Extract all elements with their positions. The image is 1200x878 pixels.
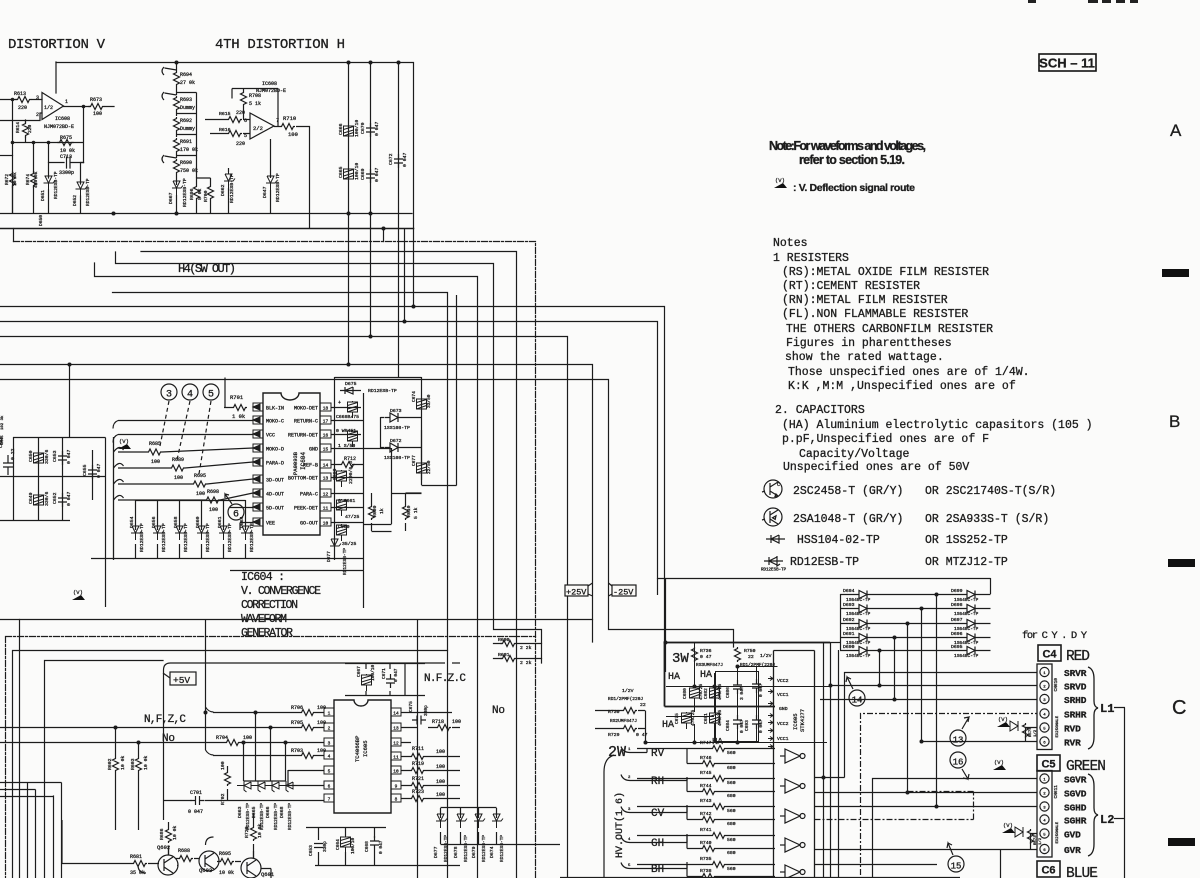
svg-text:C653: C653 [308, 845, 314, 856]
wire L1 link [1114, 708, 1125, 878]
svg-text:100: 100 [93, 111, 102, 117]
svg-text:RD12ESB-TP: RD12ESB-TP [463, 835, 469, 862]
svg-text:47/25: 47/25 [345, 514, 360, 520]
svg-text:2: 2 [36, 112, 39, 118]
V-route flag near bus entry [118, 438, 131, 449]
svg-text:R738: R738 [700, 868, 712, 874]
capacitor C675b [682, 712, 692, 729]
STK amp channel 4 [780, 838, 805, 852]
svg-text:1: 1 [1043, 672, 1046, 676]
V-route flag C5 [1002, 822, 1015, 833]
svg-text:OR 1SS252-TP: OR 1SS252-TP [925, 534, 1008, 547]
zener D674 [492, 808, 503, 844]
circled pointer 13 [950, 717, 969, 746]
svg-text:D647: D647 [262, 186, 268, 198]
wire feedback rail y142 [13, 100, 84, 214]
zener D658 [175, 500, 186, 558]
svg-text:IC604 :: IC604 : [241, 571, 285, 584]
svg-text:show the rated wattage.: show the rated wattage. [785, 351, 944, 364]
wire C4 pin2 feed [831, 685, 1038, 687]
svg-text:RD12ESB-TP: RD12ESB-TP [229, 174, 235, 203]
svg-text:RD12ESB-TP: RD12ESB-TP [227, 523, 233, 552]
svg-text:D661: D661 [217, 516, 223, 528]
svg-text:RS2UMF847J: RS2UMF847J [610, 718, 637, 724]
svg-text:A: A [1170, 121, 1182, 140]
zener D675 [340, 387, 361, 394]
wire riser x205 [206, 620, 214, 756]
svg-text:0 22: 0 22 [10, 448, 16, 460]
wire bus M5 -25V riser [0, 380, 734, 648]
svg-text:R721: R721 [412, 776, 424, 782]
svg-text:R741: R741 [700, 827, 712, 833]
svg-text:680: 680 [727, 821, 736, 827]
svg-text:1: 1 [628, 748, 631, 752]
+25V supply flag [565, 583, 593, 596]
capacitor C675 330p [412, 716, 426, 725]
svg-text:CORRECTION: CORRECTION [241, 599, 298, 612]
resistor R610 [403, 505, 409, 520]
capacitor C701 [191, 796, 205, 805]
svg-text:D663: D663 [237, 806, 243, 818]
zener D652 [76, 180, 87, 196]
svg-text:(RN):METAL FILM RESISTER: (RN):METAL FILM RESISTER [782, 294, 948, 307]
wire row y650 [13, 620, 448, 878]
svg-text:R672: R672 [4, 174, 10, 185]
svg-text:10 0k: 10 0k [120, 755, 126, 770]
capacitor C689 [752, 679, 761, 693]
svg-text:R700: R700 [203, 190, 209, 202]
svg-text:1SS108-TP: 1SS108-TP [384, 455, 410, 461]
connector pin RH [621, 775, 637, 781]
wire rail y213 [0, 213, 412, 215]
IC605 right pins [391, 708, 401, 802]
svg-text:100: 100 [436, 779, 445, 785]
svg-text:7: 7 [328, 797, 331, 803]
svg-text:Unspecified ones are of 50V: Unspecified ones are of 50V [783, 461, 969, 474]
svg-text:K:K ,M:M ,Unspecified ones are: K:K ,M:M ,Unspecified ones are of [788, 380, 1016, 393]
svg-text:5: 5 [1043, 728, 1046, 732]
wire rows 420 434 [113, 421, 253, 443]
junction dots matrix [878, 593, 939, 653]
svg-text:CV: CV [651, 808, 665, 820]
svg-text:HA: HA [662, 720, 674, 731]
svg-text:C682: C682 [703, 688, 709, 699]
svg-text:1S648C-TP: 1S648C-TP [954, 611, 979, 617]
svg-text:R610: R610 [406, 505, 412, 517]
resistor R745 [637, 778, 775, 780]
svg-text:0 047: 0 047 [66, 449, 72, 464]
svg-text:BLK-IN: BLK-IN [266, 406, 284, 412]
svg-text:6: 6 [328, 784, 331, 790]
capacitor C686 [733, 680, 742, 694]
+5V supply flag [163, 672, 196, 685]
svg-text:3: 3 [328, 741, 331, 747]
svg-text:R723: R723 [412, 789, 424, 795]
svg-text:R730: R730 [608, 709, 620, 715]
svg-text:GND: GND [309, 447, 318, 453]
resistor R740 [687, 834, 775, 849]
circled pointer 15 [947, 843, 964, 872]
svg-text:OR MTZJ12-TP: OR MTZJ12-TP [925, 556, 1008, 569]
svg-text:R735: R735 [700, 856, 712, 862]
IC604 right pins [320, 403, 331, 526]
svg-text:4: 4 [628, 838, 631, 842]
svg-text:220: 220 [27, 124, 33, 133]
svg-text:170 0k: 170 0k [180, 147, 198, 153]
svg-text:15: 15 [951, 862, 962, 872]
svg-text:R686: R686 [159, 828, 165, 840]
svg-text:RD1/2PMF(220J: RD1/2PMF(220J [608, 696, 643, 702]
resistor R600 [494, 643, 542, 645]
bracket C5 [1088, 774, 1098, 856]
svg-text:PARA-D: PARA-D [266, 461, 284, 467]
svg-text:C677: C677 [411, 455, 417, 466]
svg-text:VCC1: VCC1 [777, 692, 789, 698]
capacitor C693 [752, 715, 761, 729]
svg-text:R692: R692 [180, 118, 192, 124]
svg-text:C655: C655 [82, 464, 88, 476]
stack arc taps [162, 67, 177, 163]
svg-text:100: 100 [317, 720, 326, 726]
STK amp channel 1 [780, 749, 805, 763]
capacitor C681 [710, 712, 720, 729]
svg-text:R702: R702 [220, 793, 226, 805]
wire VEE row [230, 508, 253, 531]
legend transistor PNP 2SA1048 [762, 508, 782, 526]
svg-text:2: 2 [628, 776, 631, 780]
wire top rail V-net [56, 63, 414, 307]
svg-text:R689: R689 [172, 457, 184, 463]
svg-text:D664: D664 [239, 516, 245, 528]
connector pin GH [621, 837, 637, 843]
zener D679 [474, 808, 485, 844]
feedback wire U2 [232, 89, 278, 127]
capacitor C670 [366, 123, 375, 137]
svg-text:100: 100 [317, 705, 326, 711]
svg-text:1 0k: 1 0k [232, 413, 246, 420]
svg-text:13: 13 [953, 736, 964, 746]
wire U1 input/output [0, 62, 114, 121]
svg-text:D672: D672 [390, 438, 402, 444]
svg-text:VEE: VEE [266, 521, 275, 527]
resistor R741 [637, 835, 775, 837]
resistor R729b [251, 813, 257, 858]
svg-text:R736: R736 [700, 648, 712, 654]
svg-text:2. CAPACITORS: 2. CAPACITORS [775, 404, 865, 417]
matrix drop verticals [880, 595, 937, 807]
svg-text:SCH – 11: SCH – 11 [1039, 56, 1095, 71]
capacitor C661 [337, 499, 347, 516]
svg-text:12: 12 [393, 741, 399, 747]
svg-text:R675: R675 [60, 135, 72, 141]
svg-text:9: 9 [395, 784, 398, 790]
svg-text:0 WR451: 0 WR451 [336, 428, 356, 434]
wire C675 row [401, 713, 460, 743]
resistor R681 [120, 861, 158, 867]
svg-text:11: 11 [393, 755, 399, 761]
svg-text:R691: R691 [180, 139, 192, 145]
resistor R613 [16, 97, 31, 103]
svg-text:14: 14 [393, 711, 399, 717]
svg-text:C674: C674 [411, 391, 417, 402]
svg-text:C4: C4 [1042, 649, 1057, 661]
svg-text:C650: C650 [28, 450, 34, 462]
IC U604 PA0093B body [263, 393, 320, 535]
svg-text:330/6: 330/6 [44, 491, 50, 506]
STK amp channel 2 [780, 779, 805, 793]
svg-text:R685: R685 [149, 441, 161, 447]
svg-text:PEEK-DET: PEEK-DET [294, 506, 318, 512]
svg-text:B: B [1169, 412, 1180, 431]
svg-text:220: 220 [236, 141, 245, 147]
resistor R603 [136, 743, 142, 831]
svg-text:100: 100 [436, 749, 445, 755]
svg-text:H4(SW OUT): H4(SW OUT) [178, 262, 236, 276]
resistor R702 [225, 771, 231, 786]
IC604 left pins [253, 403, 263, 526]
svg-text:4TH DISTORTION H: 4TH DISTORTION H [215, 37, 345, 53]
svg-text:R674: R674 [25, 174, 31, 185]
svg-text:RD12ESB-TP: RD12ESB-TP [761, 569, 787, 573]
svg-text:100/10: 100/10 [350, 837, 356, 854]
svg-text:RD1/2PMF(220J: RD1/2PMF(220J [740, 662, 775, 668]
svg-text:PARA-C: PARA-C [300, 492, 318, 498]
wire L2 link [1114, 818, 1125, 820]
svg-text:RD12ESB-TP: RD12ESB-TP [790, 556, 859, 569]
svg-text:R710: R710 [283, 115, 296, 122]
resistor R735 [637, 864, 775, 866]
svg-text:BLUE: BLUE [1066, 866, 1098, 878]
wire C5 pin5 feed [1030, 834, 1037, 850]
zener D663 [237, 781, 253, 792]
wire rail y228 [0, 228, 414, 230]
svg-text:C681: C681 [703, 713, 709, 724]
svg-text:Figures in pharenttheses: Figures in pharenttheses [786, 337, 952, 350]
svg-text:100: 100 [151, 459, 160, 465]
capacitor C653b [314, 844, 323, 848]
svg-text:2SA1048-T (GR/Y): 2SA1048-T (GR/Y) [793, 513, 903, 526]
svg-text:C: C [1172, 697, 1186, 719]
resistor R750 [735, 647, 741, 662]
svg-text:R705: R705 [291, 720, 303, 726]
svg-text:13: 13 [323, 476, 329, 482]
resistor R689 [170, 465, 185, 471]
zener D668 [279, 781, 295, 792]
transistor Q602 [158, 855, 178, 875]
svg-text:18: 18 [323, 406, 329, 412]
wire row to pin via R695 [114, 479, 254, 484]
svg-text:13: 13 [393, 726, 399, 732]
svg-text:D652: D652 [72, 195, 78, 206]
resistor R694 [174, 71, 180, 86]
svg-text:470/25: 470/25 [717, 683, 723, 700]
svg-text:R742: R742 [700, 811, 712, 817]
svg-text:(HA) Aluminium electrolytic ca: (HA) Aluminium electrolytic capasitors (… [782, 419, 1093, 432]
svg-text:D699: D699 [951, 588, 963, 594]
capacitor C669a [366, 169, 375, 183]
svg-text:C693: C693 [744, 720, 750, 731]
svg-text:1SS108-TP: 1SS108-TP [384, 425, 410, 431]
circled pointer 14 [846, 677, 865, 706]
wire D673 D672 branch [381, 295, 457, 486]
diode D672 [385, 443, 406, 452]
svg-text:C669: C669 [360, 168, 366, 180]
svg-text:6: 6 [244, 118, 247, 124]
svg-text:N,F,Z,C: N,F,Z,C [144, 714, 186, 726]
svg-text:2W: 2W [608, 744, 626, 761]
resistor R701 [224, 378, 247, 411]
wire bus L3 [113, 293, 448, 878]
wire C4 pin5 feed [1025, 728, 1037, 742]
svg-text:10 0k: 10 0k [172, 825, 178, 840]
svg-text:REF-B: REF-B [303, 463, 318, 469]
svg-text:C652: C652 [52, 492, 58, 504]
V-route flag lower left [72, 589, 85, 600]
legend transistor NPN 2SC2458 [762, 480, 782, 498]
svg-text:100: 100 [436, 764, 445, 770]
svg-text:R745: R745 [700, 770, 712, 776]
wire row y864 [815, 864, 938, 866]
svg-text:0 047: 0 047 [758, 683, 764, 697]
resistor R673 [89, 104, 104, 110]
svg-text:C672: C672 [388, 153, 394, 165]
svg-text:D658: D658 [173, 516, 179, 528]
resistor R601 [494, 658, 542, 660]
svg-text:C701: C701 [190, 790, 202, 796]
svg-text:R740: R740 [700, 840, 712, 846]
svg-text:R729: R729 [608, 732, 620, 738]
capacitor C652 [58, 493, 67, 507]
svg-text:R718: R718 [432, 719, 444, 725]
svg-text:D697: D697 [951, 617, 963, 623]
svg-text:100: 100 [174, 475, 183, 481]
connector pin RV [621, 747, 637, 753]
capacitor C660 [337, 524, 347, 541]
svg-text:1S648C-TP: 1S648C-TP [846, 653, 871, 659]
svg-text:0 047: 0 047 [374, 121, 380, 136]
svg-text:R696: R696 [189, 188, 195, 200]
resistor R693 [174, 96, 180, 111]
svg-text:3: 3 [1043, 807, 1046, 811]
svg-text:: V. Deflection signal route: : V. Deflection signal route [793, 182, 915, 194]
svg-text:0 047: 0 047 [758, 719, 764, 733]
svg-text:THE OTHERS CARBONFILM RESISTER: THE OTHERS CARBONFILM RESISTER [786, 323, 993, 336]
svg-text:IC608: IC608 [55, 116, 70, 122]
svg-text:RD12ESB-TP: RD12ESB-TP [205, 523, 211, 552]
wire C5 pin4 feed V-route [815, 792, 974, 820]
resistor R706 row [213, 712, 324, 714]
svg-text:100: 100 [196, 491, 205, 497]
junction dots feeds [822, 684, 939, 809]
wire riser x417 [417, 620, 419, 878]
svg-text:SRVR: SRVR [1064, 668, 1087, 679]
wire diode row rail [91, 501, 364, 571]
wire caps rails [306, 827, 460, 866]
svg-text:1: 1 [1043, 779, 1046, 783]
svg-text:1/2V: 1/2V [622, 688, 634, 694]
svg-text:D679: D679 [471, 846, 477, 858]
resistor R710 [280, 124, 295, 130]
zener D654 [131, 500, 142, 558]
wire riser x838 [838, 650, 840, 878]
connector pin BH [621, 863, 637, 869]
svg-text:0 047: 0 047 [188, 809, 203, 815]
svg-text:MOKO-C: MOKO-C [266, 419, 284, 425]
wire caps verticals [349, 62, 405, 377]
svg-text:3: 3 [36, 95, 39, 101]
wire C4 pin4 feed V-route [861, 714, 1038, 876]
svg-text:0 047: 0 047 [66, 491, 72, 506]
connector C4 strip [1037, 664, 1052, 750]
svg-text:22: 22 [748, 654, 754, 660]
svg-text:100: 100 [209, 507, 218, 513]
svg-text:0 C661: 0 C661 [338, 498, 355, 504]
resistor R685 [147, 449, 162, 455]
svg-text:C669: C669 [332, 468, 338, 480]
svg-text:3300p: 3300p [59, 170, 74, 176]
resistor R743 [637, 806, 775, 808]
svg-text:5: 5 [628, 864, 631, 868]
svg-text:1: 1 [328, 711, 331, 717]
svg-text:RED: RED [1066, 649, 1090, 665]
wire C4 pin3 feed [820, 699, 1037, 701]
svg-text:V. CONVERGENCE: V. CONVERGENCE [241, 585, 321, 598]
svg-text:C713: C713 [60, 154, 72, 160]
svg-text:Capacity/Voltage: Capacity/Voltage [799, 448, 910, 461]
resistor R616 [227, 131, 242, 137]
svg-text:C666: C666 [338, 123, 344, 135]
svg-text:C675: C675 [674, 713, 680, 724]
svg-text:No: No [162, 733, 175, 745]
svg-text:R704: R704 [216, 735, 228, 741]
zener D667 [172, 179, 183, 195]
svg-text:R747: R747 [700, 740, 712, 746]
svg-text:SGHR: SGHR [1064, 816, 1087, 827]
svg-text:3W: 3W [672, 651, 689, 667]
zener D678 [456, 808, 467, 844]
wire row to pin via R685 [114, 447, 254, 452]
svg-text:D674: D674 [489, 846, 495, 858]
svg-text:R602: R602 [107, 758, 113, 770]
svg-text:5 1k: 5 1k [249, 101, 261, 107]
svg-text:GO-OUT: GO-OUT [300, 521, 318, 527]
svg-text:EX25GNALE: EX25GNALE [1056, 715, 1060, 737]
circled pointer 4 [177, 384, 198, 460]
svg-text:No: No [492, 705, 505, 717]
svg-text:RVR: RVR [1064, 738, 1081, 749]
svg-text:100/10: 100/10 [354, 163, 360, 180]
svg-text:2200/6.3: 2200/6.3 [348, 461, 354, 484]
svg-text:NJM072BD-E: NJM072BD-E [44, 124, 74, 130]
svg-text:330p: 330p [423, 705, 429, 716]
STK left pin stubs [768, 677, 774, 749]
svg-text:3 047: 3 047 [739, 686, 745, 700]
svg-text:0 47: 0 47 [700, 654, 712, 660]
zener D664 [241, 500, 252, 558]
svg-text:RD12ESB-TP: RD12ESB-TP [273, 803, 279, 830]
V-route flag mid [993, 759, 1006, 770]
svg-text:C665: C665 [338, 166, 344, 178]
connector pin CV [621, 807, 637, 813]
capacitor C650 [34, 452, 44, 469]
capacitor C677 [417, 462, 427, 479]
svg-text:470/25: 470/25 [717, 709, 723, 726]
wire row y619 [0, 619, 593, 621]
svg-text:5 0k: 5 0k [197, 188, 203, 200]
wire cap cluster feed x69 [69, 365, 71, 438]
zener D666 [265, 781, 281, 792]
svg-text:2: 2 [328, 726, 331, 732]
